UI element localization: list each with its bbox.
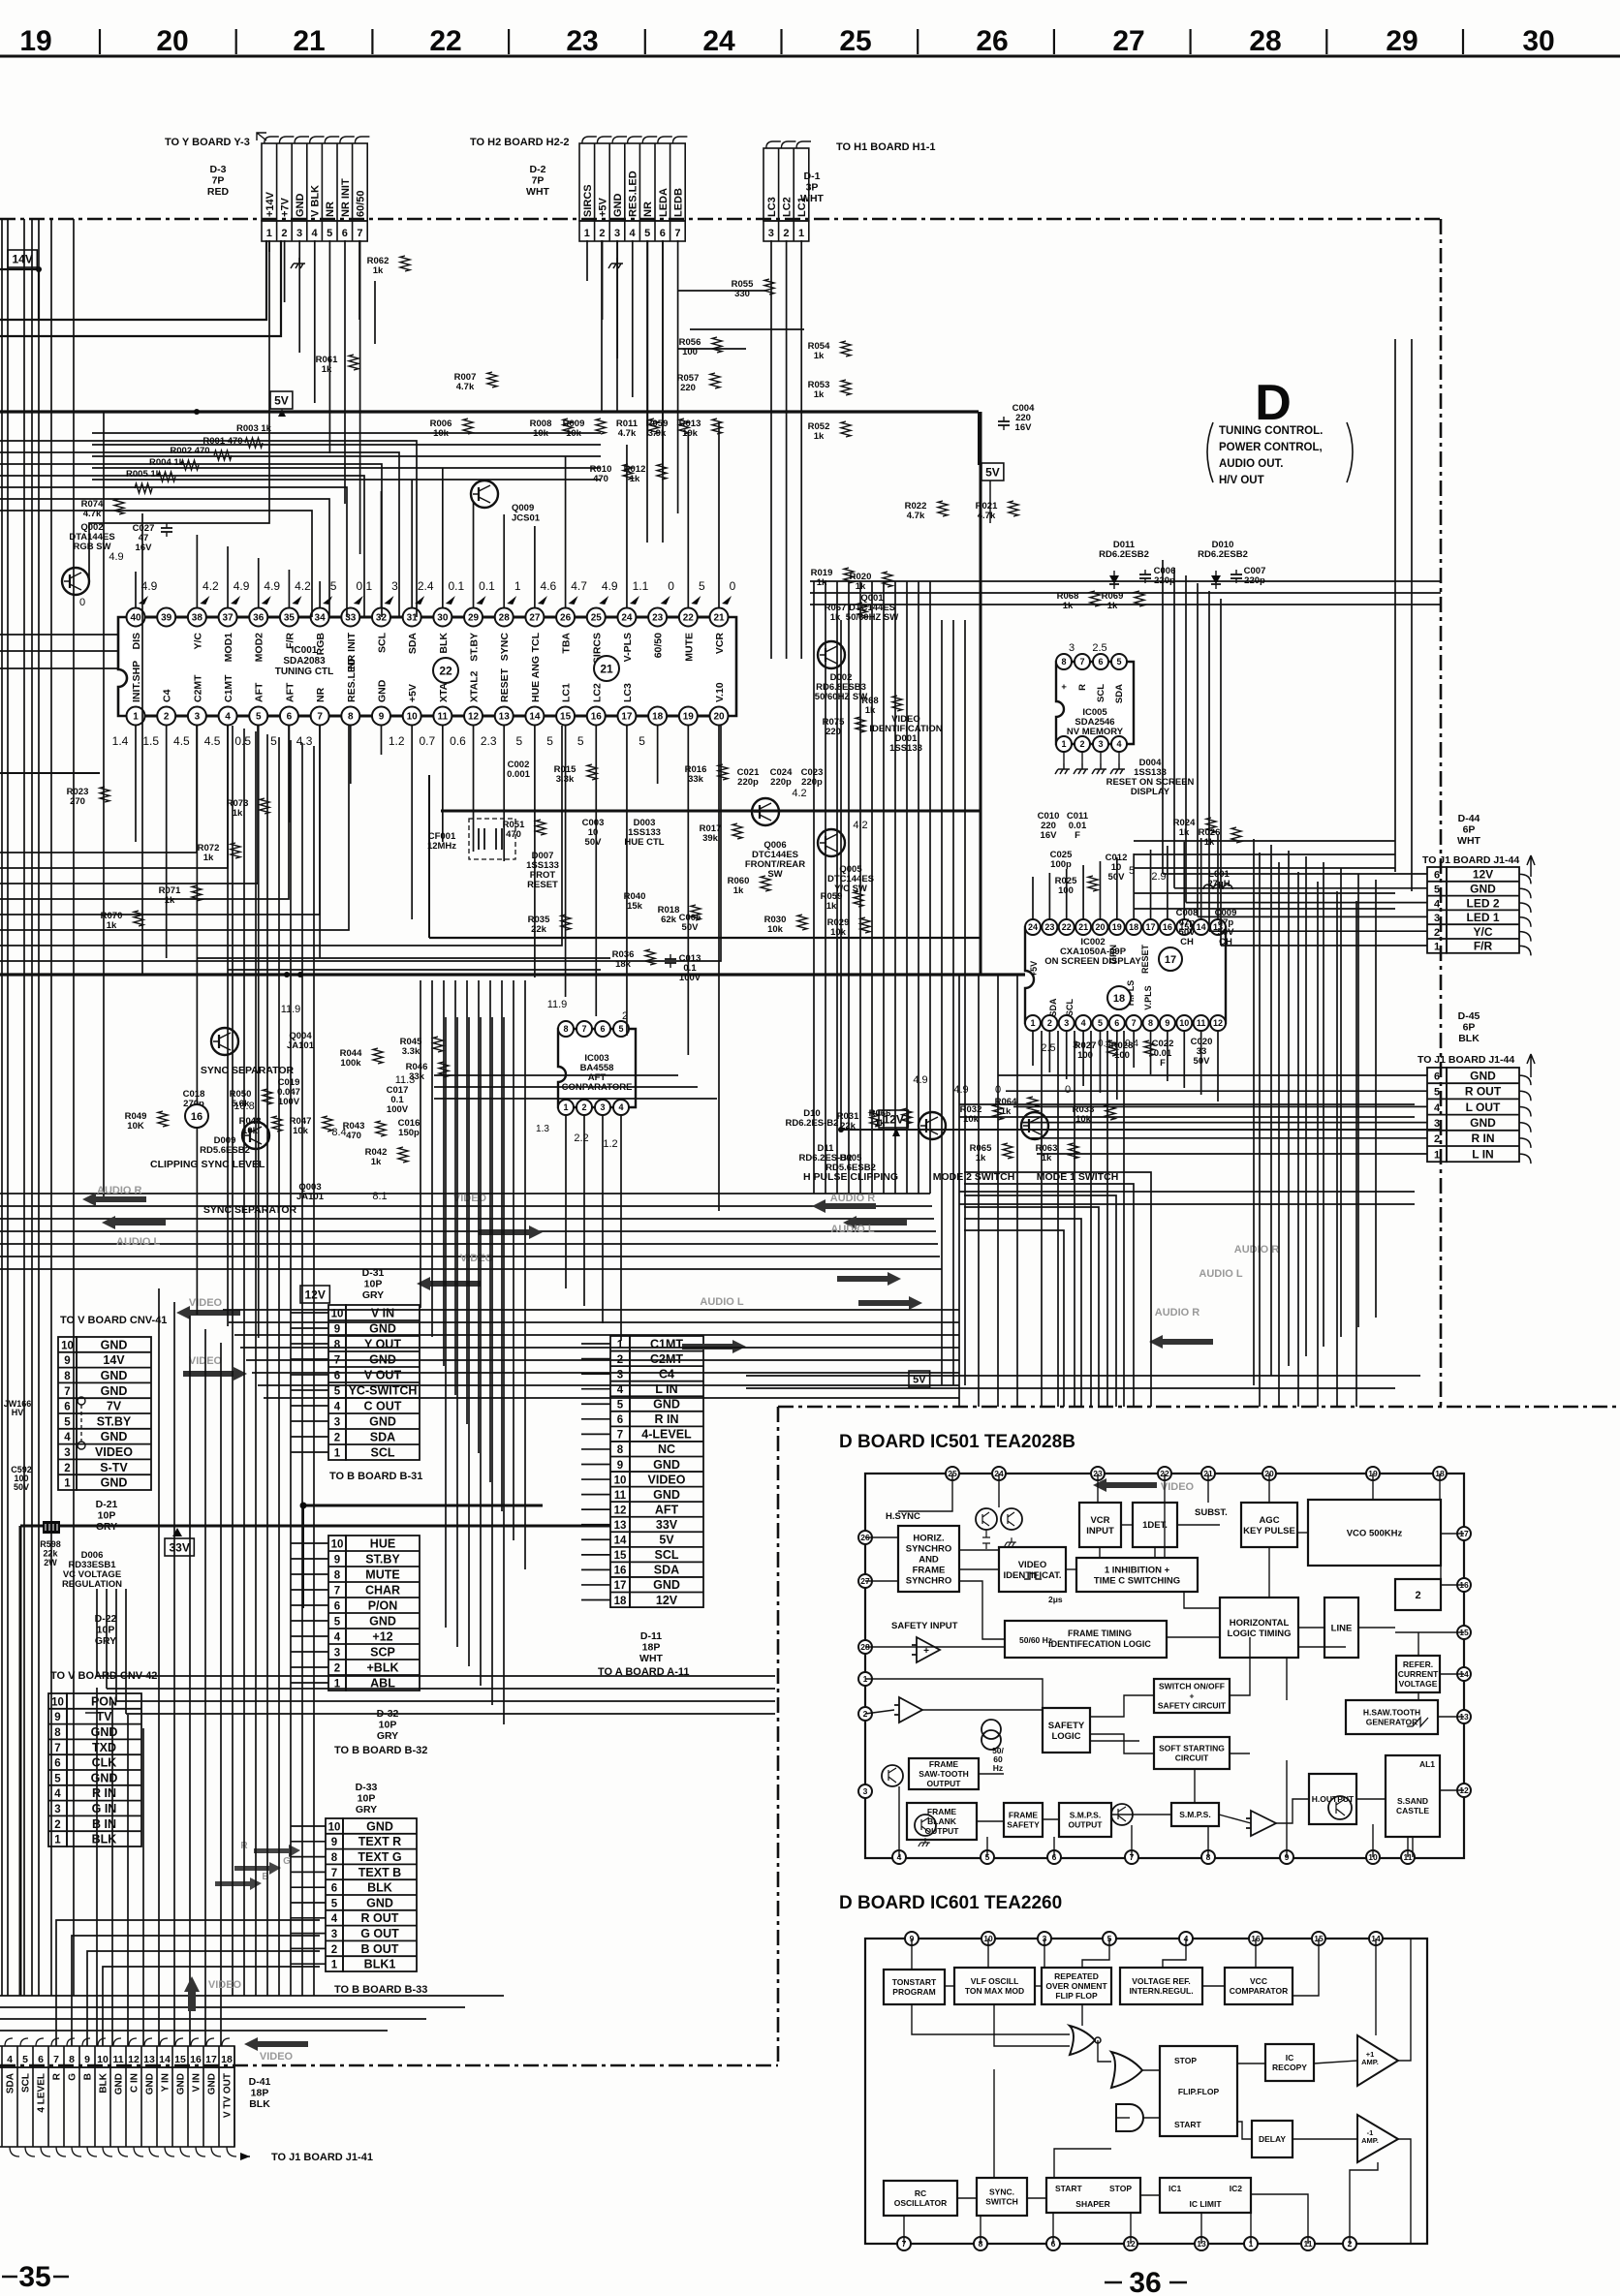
IC501 transistor smps out (1111, 1804, 1133, 1825)
svg-text:SCP: SCP (370, 1646, 395, 1660)
svg-text:5: 5 (1098, 1018, 1103, 1028)
svg-text:GND: GND (369, 1615, 396, 1629)
svg-text:AL1: AL1 (1419, 1759, 1435, 1769)
svg-text:AMP.: AMP. (1361, 2136, 1379, 2145)
svg-text:MUTE: MUTE (365, 1568, 399, 1582)
svg-text:F: F (1075, 830, 1080, 841)
svg-text:TEXT R: TEXT R (358, 1835, 401, 1848)
svg-text:22: 22 (439, 664, 452, 677)
svg-text:R IN: R IN (655, 1412, 679, 1426)
svg-text:220p: 220p (1154, 575, 1175, 586)
svg-text:4.2: 4.2 (792, 788, 806, 799)
svg-text:10: 10 (51, 1696, 64, 1708)
svg-text:29: 29 (1386, 25, 1417, 57)
svg-text:17: 17 (1165, 954, 1176, 966)
svg-text:14V: 14V (103, 1353, 125, 1367)
svg-text:BLANK: BLANK (927, 1816, 957, 1826)
svg-text:5: 5 (639, 734, 645, 748)
wire top pins of IC001 up (135, 572, 137, 607)
svg-text:0: 0 (668, 579, 674, 593)
wire ic002 bottom feeds (1032, 1031, 1034, 1066)
svg-text:100: 100 (1058, 885, 1074, 896)
svg-text:3: 3 (334, 1648, 340, 1660)
svg-text:G: G (68, 2073, 78, 2081)
svg-text:L IN: L IN (655, 1382, 677, 1396)
svg-text:SAFETY INPUT: SAFETY INPUT (891, 1621, 958, 1631)
svg-text:50V: 50V (1194, 1056, 1211, 1067)
transistor Q002 (62, 568, 89, 595)
transistor Q003 (242, 1122, 269, 1149)
svg-text:0.7: 0.7 (419, 734, 435, 748)
svg-text:VCC: VCC (1250, 1976, 1267, 1986)
svg-text:6: 6 (287, 712, 293, 723)
svg-text:NV MEMORY: NV MEMORY (1067, 727, 1124, 737)
svg-text:9: 9 (379, 712, 385, 723)
svg-text:SYNC: SYNC (499, 633, 511, 662)
svg-text:AFT: AFT (254, 682, 265, 702)
svg-text:28: 28 (1249, 25, 1281, 57)
svg-text:VIDEO: VIDEO (453, 1193, 487, 1204)
svg-text:7: 7 (334, 1586, 340, 1598)
svg-text:2: 2 (331, 1944, 337, 1956)
svg-text:4.7k: 4.7k (907, 511, 925, 521)
svg-text:VIDEO: VIDEO (189, 1297, 223, 1309)
svg-text:2: 2 (334, 1663, 340, 1675)
svg-text:TEXT G: TEXT G (358, 1850, 401, 1864)
IC601 pin 3 top (1038, 1932, 1051, 1945)
svg-text:V BLK: V BLK (310, 185, 322, 217)
svg-text:START: START (1174, 2120, 1202, 2129)
svg-text:GND: GND (653, 1458, 680, 1472)
IC501 pin 3 left (858, 1784, 872, 1798)
svg-text:5: 5 (334, 1386, 341, 1398)
svg-text:4: 4 (1116, 739, 1121, 749)
svg-text:S.SAND: S.SAND (1397, 1796, 1428, 1806)
IC501 pin 17 right (1457, 1527, 1471, 1540)
svg-text:1: 1 (334, 1448, 341, 1460)
svg-text:FRAME TIMING: FRAME TIMING (1068, 1629, 1132, 1638)
svg-text:4: 4 (1081, 1018, 1086, 1028)
svg-text:24: 24 (1028, 922, 1038, 932)
svg-text:AFT: AFT (655, 1503, 679, 1516)
svg-text:20: 20 (713, 712, 725, 723)
svg-text:GND: GND (612, 194, 624, 218)
svg-text:1.2: 1.2 (603, 1138, 617, 1150)
svg-text:18: 18 (652, 712, 664, 723)
svg-text:RESET: RESET (499, 667, 511, 702)
IC501 block safety logic (1043, 1708, 1090, 1753)
svg-text:GND: GND (653, 1398, 680, 1412)
svg-text:1: 1 (1030, 1018, 1035, 1028)
svg-text:KEY PULSE: KEY PULSE (1243, 1526, 1295, 1536)
svg-text:4.7: 4.7 (571, 579, 587, 593)
wire feeds into D-33 table (291, 1825, 326, 1827)
svg-text:1 INHIBITION +: 1 INHIBITION + (1105, 1565, 1170, 1575)
svg-text:10k: 10k (682, 428, 699, 439)
wire feeds into D-31 table (291, 1312, 328, 1314)
IC501 pin 18 (1433, 1467, 1447, 1480)
svg-text:GND: GND (114, 2073, 125, 2094)
svg-text:33k: 33k (688, 774, 704, 785)
svg-text:5: 5 (54, 1773, 61, 1784)
svg-text:1: 1 (798, 228, 804, 239)
svg-text:1: 1 (331, 1960, 338, 1971)
svg-text:2: 2 (164, 712, 170, 723)
svg-text:D-22: D-22 (95, 1613, 117, 1625)
svg-text:ST.BY: ST.BY (97, 1414, 132, 1428)
wire 14V bus (0, 268, 39, 270)
svg-text:C IN: C IN (130, 2073, 140, 2093)
IC501 pin 11 bottom (1401, 1850, 1415, 1864)
wire top-right long horizontals (810, 580, 1441, 582)
svg-text:TO B BOARD B-31: TO B BOARD B-31 (329, 1471, 422, 1482)
svg-text:330: 330 (734, 289, 750, 299)
svg-text:PROGRAM: PROGRAM (892, 1987, 935, 1997)
svg-text:C1MT: C1MT (223, 674, 234, 702)
svg-text:COMPARATOR: COMPARATOR (1230, 1986, 1288, 1996)
IC501 block frame blank (907, 1803, 977, 1840)
svg-text:35: 35 (18, 2261, 50, 2293)
svg-text:HV: HV (12, 1408, 24, 1417)
svg-text:4.2: 4.2 (202, 579, 219, 593)
svg-text:1.1: 1.1 (633, 579, 649, 593)
IC601 pin 11 bottom (1301, 2237, 1315, 2250)
svg-text:GND: GND (376, 679, 388, 702)
svg-text:SCL: SCL (21, 2073, 32, 2093)
svg-text:4.3: 4.3 (296, 734, 313, 748)
svg-text:3: 3 (1434, 1118, 1440, 1130)
IC601 pin 9 top (905, 1932, 919, 1945)
svg-text:+12: +12 (372, 1630, 392, 1644)
wire staircase into D-41 pins (56, 1920, 320, 2046)
svg-text:2: 2 (599, 228, 605, 239)
svg-text:10k: 10k (293, 1126, 309, 1136)
svg-text:F: F (1160, 1058, 1166, 1069)
svg-text:INPUT: INPUT (1086, 1526, 1114, 1536)
svg-text:4.9: 4.9 (953, 1084, 968, 1096)
svg-text:NR: NR (642, 202, 654, 217)
svg-text:GND: GND (101, 1384, 128, 1398)
wire lower right horizontals 2 (746, 1375, 1420, 1377)
svg-text:GND: GND (366, 1896, 393, 1909)
svg-text:R002 470: R002 470 (170, 446, 209, 456)
svg-text:24: 24 (702, 25, 735, 57)
IC601 nor gate (1070, 2026, 1095, 2055)
svg-text:20: 20 (156, 25, 188, 57)
svg-text:16: 16 (591, 712, 603, 723)
svg-text:SDA: SDA (407, 633, 419, 655)
wire audio bundle verticals (813, 581, 815, 1194)
IC601 block delay (1252, 2121, 1293, 2157)
svg-text:2: 2 (1415, 1590, 1420, 1601)
svg-text:1k: 1k (1179, 827, 1190, 838)
svg-text:12V: 12V (656, 1594, 678, 1607)
svg-text:5: 5 (1116, 657, 1121, 667)
svg-text:12V: 12V (304, 1288, 325, 1302)
svg-text:SUBST.: SUBST. (1195, 1507, 1228, 1518)
wire audio bundle left (0, 1193, 930, 1195)
svg-text:8: 8 (1148, 1018, 1153, 1028)
svg-text:470: 470 (346, 1131, 361, 1141)
svg-text:5: 5 (699, 579, 705, 593)
svg-text:1k: 1k (165, 895, 175, 906)
svg-text:Y/C: Y/C (192, 633, 203, 650)
svg-text:3.3k: 3.3k (402, 1046, 421, 1057)
IC501 block refer current (1396, 1656, 1440, 1692)
IC501 block vco (1308, 1500, 1441, 1566)
svg-text:4 LEVEL: 4 LEVEL (37, 2073, 47, 2113)
IC501 block smps (1171, 1803, 1219, 1826)
svg-text:+: + (1190, 1691, 1195, 1701)
net label 5V bottom (909, 1371, 930, 1387)
svg-text:D BOARD IC501 TEA2028B: D BOARD IC501 TEA2028B (839, 1432, 1075, 1452)
wire left vertical 147 (141, 513, 143, 975)
svg-text:4: 4 (312, 228, 319, 239)
svg-text:38: 38 (192, 613, 203, 624)
svg-text:8: 8 (331, 1852, 338, 1864)
svg-text:SDA2083: SDA2083 (283, 656, 326, 667)
svg-text:RES.LED: RES.LED (346, 658, 358, 702)
svg-text:62k: 62k (661, 915, 677, 925)
svg-text:OVER ONMENT: OVER ONMENT (1045, 1981, 1107, 1991)
svg-text:5: 5 (546, 734, 553, 748)
svg-text:5: 5 (331, 1898, 338, 1909)
svg-text:LEDB: LEDB (672, 188, 684, 217)
svg-text:SAFETY: SAFETY (1007, 1820, 1040, 1830)
svg-text:6: 6 (64, 1402, 70, 1413)
IC501 pin 14 right (1457, 1667, 1471, 1681)
svg-text:4: 4 (618, 1102, 623, 1112)
resistor R598 block (43, 1521, 60, 1534)
svg-text:30: 30 (437, 613, 449, 624)
svg-text:10k: 10k (433, 428, 450, 439)
svg-text:3.9k: 3.9k (648, 428, 667, 439)
svg-text:100V: 100V (278, 1097, 300, 1107)
svg-text:TV: TV (97, 1710, 113, 1723)
svg-text:5: 5 (1434, 884, 1440, 896)
svg-text:LOGIC TIMING: LOGIC TIMING (1228, 1629, 1292, 1639)
svg-text:R OUT: R OUT (361, 1911, 399, 1925)
svg-text:5: 5 (22, 2054, 28, 2065)
svg-text:+5V: +5V (1029, 961, 1039, 977)
svg-text:B OUT: B OUT (361, 1942, 399, 1956)
svg-text:8: 8 (348, 712, 354, 723)
svg-text:P/ON: P/ON (368, 1599, 398, 1613)
svg-text:15: 15 (174, 2054, 186, 2065)
IC501 pin 9 bottom (1280, 1850, 1293, 1864)
svg-text:1k: 1k (1001, 1106, 1012, 1117)
svg-text:GND: GND (101, 1369, 128, 1382)
svg-text:10: 10 (97, 2054, 109, 2065)
svg-text:3: 3 (768, 228, 774, 239)
svg-text:GND: GND (653, 1488, 680, 1502)
IC601 and gate (1116, 2104, 1143, 2131)
svg-text:TO H1 BOARD H1-1: TO H1 BOARD H1-1 (836, 141, 935, 153)
svg-text:AND: AND (919, 1554, 939, 1565)
svg-text:SCL: SCL (1065, 998, 1075, 1016)
wire left long verticals (1, 219, 3, 1996)
svg-text:21: 21 (713, 613, 725, 624)
svg-text:CH: CH (1219, 937, 1232, 947)
IC501 pin 26 left (858, 1531, 872, 1544)
transistor Q009 (471, 481, 498, 508)
IC601 amp -1 (1357, 2115, 1398, 2162)
svg-text:22k: 22k (43, 1549, 58, 1559)
IC501 outer box (865, 1474, 1464, 1858)
net label 33V (165, 1538, 194, 1556)
svg-text:H PULSE CLIPPING: H PULSE CLIPPING (803, 1171, 898, 1183)
svg-text:RD6.2ES-B2: RD6.2ES-B2 (786, 1118, 839, 1129)
wire D-1 drops (770, 240, 772, 659)
svg-text:LC2: LC2 (591, 683, 603, 702)
svg-text:5: 5 (1434, 1087, 1440, 1099)
svg-text:15: 15 (560, 712, 572, 723)
svg-text:SCL: SCL (371, 1446, 395, 1460)
svg-text:SDA: SDA (6, 2073, 16, 2094)
svg-text:CLIPPING SYNC LEVEL: CLIPPING SYNC LEVEL (150, 1159, 265, 1170)
svg-text:3: 3 (1064, 1018, 1069, 1028)
svg-text:11: 11 (1197, 1018, 1206, 1028)
svg-text:150p: 150p (398, 1128, 420, 1138)
svg-text:IC LIMIT: IC LIMIT (1189, 2199, 1222, 2209)
IC601 block sync switch (977, 2178, 1027, 2216)
IC001 bottom pin row (136, 715, 719, 718)
svg-text:5: 5 (644, 228, 650, 239)
svg-text:GRN: GRN (1108, 945, 1118, 964)
svg-text:8: 8 (334, 1570, 341, 1582)
svg-text:CH: CH (1180, 937, 1194, 947)
wire 5V right drop (989, 481, 991, 523)
svg-text:4: 4 (331, 1913, 338, 1925)
svg-text:R: R (1077, 684, 1088, 691)
IC501 pin 27 left (858, 1574, 872, 1588)
svg-text:1: 1 (1434, 1149, 1440, 1161)
svg-text:1k: 1k (826, 901, 837, 912)
svg-text:2.9: 2.9 (1151, 871, 1166, 883)
svg-text:GND: GND (369, 1415, 396, 1429)
junction dots on 5V bus (284, 972, 290, 977)
svg-text:VOLTAGE REF.: VOLTAGE REF. (1132, 1976, 1191, 1986)
svg-text:AUDIO L: AUDIO L (830, 1224, 875, 1235)
svg-text:POWER CONTROL,: POWER CONTROL, (1219, 442, 1323, 453)
IC501 block agc key pulse (1241, 1503, 1297, 1547)
svg-text:50V: 50V (585, 837, 603, 848)
svg-text:H.SAW.TOOTH: H.SAW.TOOTH (1363, 1708, 1420, 1718)
IC IC003 BA4558 AFT comparator (558, 1029, 636, 1107)
IC501 pin 2 left (858, 1707, 872, 1721)
svg-text:MOD1: MOD1 (223, 633, 234, 662)
IC501 amp triangle 1 (912, 1637, 940, 1662)
svg-text:14V: 14V (12, 253, 32, 266)
svg-text:RES.LED: RES.LED (628, 171, 639, 217)
IC501 block horiz synchro (898, 1526, 959, 1592)
svg-text:TO Y BOARD Y-3: TO Y BOARD Y-3 (165, 137, 250, 148)
svg-text:3: 3 (331, 1929, 337, 1940)
svg-text:5V: 5V (985, 466, 1000, 480)
svg-text:50/60HZ SW: 50/60HZ SW (846, 612, 898, 623)
IC601 block voltage ref (1120, 1968, 1202, 2004)
ruler tick marks (99, 29, 101, 54)
svg-text:3: 3 (195, 712, 201, 723)
svg-text:40: 40 (130, 613, 141, 624)
svg-text:22: 22 (1062, 922, 1072, 932)
svg-text:AUDIO R: AUDIO R (1155, 1307, 1200, 1319)
IC601 or gate (1111, 2052, 1142, 2088)
svg-text:TEXT B: TEXT B (358, 1866, 401, 1879)
svg-text:6: 6 (54, 1758, 60, 1770)
svg-text:35: 35 (284, 613, 296, 624)
wire video arrow d41 (244, 2037, 308, 2051)
svg-text:INTERN.REGUL.: INTERN.REGUL. (1129, 1986, 1193, 1996)
svg-text:2.2: 2.2 (574, 1132, 588, 1144)
svg-text:17: 17 (205, 2054, 217, 2065)
svg-text:10: 10 (614, 1474, 627, 1486)
svg-text:HORIZONTAL: HORIZONTAL (1230, 1618, 1290, 1629)
svg-text:AUDIO OUT.: AUDIO OUT. (1219, 458, 1283, 470)
IC501 block smps output (1059, 1803, 1111, 1837)
svg-text:Hz: Hz (993, 1763, 1003, 1773)
IC601 pin 1 bottom (1244, 2237, 1258, 2250)
svg-text:19: 19 (19, 25, 51, 57)
svg-text:4-LEVEL: 4-LEVEL (641, 1428, 692, 1442)
svg-text:50/60 Hz: 50/60 Hz (1019, 1635, 1052, 1645)
svg-text:4.6: 4.6 (541, 579, 557, 593)
svg-text:4.9: 4.9 (264, 579, 280, 593)
svg-text:TCL: TCL (530, 632, 542, 652)
svg-text:19: 19 (1112, 922, 1122, 932)
svg-text:19: 19 (683, 712, 695, 723)
svg-text:2: 2 (581, 1102, 586, 1112)
svg-text:21: 21 (600, 662, 613, 675)
svg-text:GRY: GRY (377, 1730, 398, 1742)
svg-text:5: 5 (617, 1400, 624, 1412)
wire mid bus 798 (0, 772, 100, 774)
svg-text:37: 37 (222, 613, 234, 624)
svg-text:220: 220 (680, 383, 696, 393)
svg-text:5: 5 (334, 1617, 341, 1629)
wire horizontals IC003 area (434, 1074, 678, 1076)
svg-text:AUDIO L: AUDIO L (1199, 1268, 1243, 1280)
svg-text:10P: 10P (97, 1625, 115, 1636)
svg-text:NR INIT: NR INIT (340, 178, 352, 217)
IC501 internal wires (865, 1474, 1464, 1857)
svg-text:26: 26 (976, 25, 1008, 57)
svg-text:4.7k: 4.7k (618, 428, 637, 439)
svg-text:6: 6 (660, 228, 666, 239)
svg-text:6: 6 (331, 1883, 337, 1895)
svg-text:LED 1: LED 1 (1466, 911, 1499, 924)
svg-text:GENERATOR: GENERATOR (1366, 1718, 1418, 1727)
svg-text:GND: GND (176, 2073, 187, 2094)
svg-text:VIDEO: VIDEO (460, 1253, 494, 1264)
svg-text:4.5: 4.5 (204, 734, 221, 748)
svg-text:7P: 7P (532, 175, 545, 187)
border dash-dot block-region horizontal (778, 1406, 1620, 1409)
svg-text:17: 17 (1146, 922, 1156, 932)
IC501 transistor frame blank (915, 1815, 936, 1836)
svg-text:SYNCHRO: SYNCHRO (906, 1543, 952, 1554)
svg-text:GND: GND (1470, 1116, 1496, 1130)
svg-text:VOLTAGE: VOLTAGE (1399, 1679, 1438, 1689)
wire audio arrow 1458 (1149, 1335, 1213, 1349)
wire 5V bus thick (0, 410, 979, 413)
svg-text:27: 27 (1112, 25, 1144, 57)
wire JW166 jumper (78, 1397, 85, 1405)
svg-text:SDA: SDA (1114, 684, 1125, 703)
svg-text:16V: 16V (1041, 830, 1058, 841)
svg-text:LC1: LC1 (796, 197, 808, 217)
wire D-2 drops (586, 240, 588, 281)
